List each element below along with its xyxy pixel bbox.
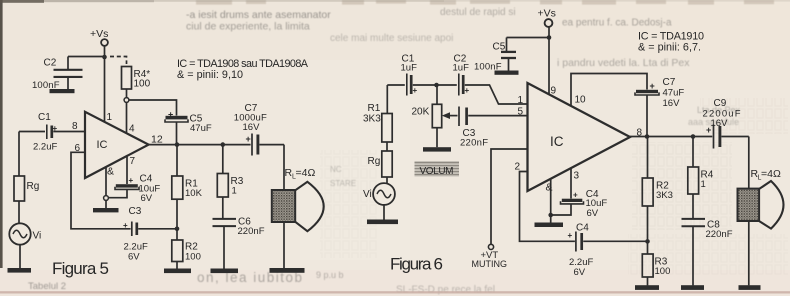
svg-text:IC: IC [550, 134, 564, 149]
svg-text:ciul de experiente, la limita: ciul de experiente, la limita [186, 21, 310, 33]
svg-text:6: 6 [75, 143, 81, 154]
svg-text:C3: C3 [129, 206, 142, 217]
svg-text:220nF: 220nF [460, 138, 488, 149]
svg-text:C2: C2 [44, 58, 57, 69]
svg-text:=4Ω: =4Ω [296, 167, 316, 179]
svg-text:16V: 16V [243, 122, 261, 133]
svg-text:8: 8 [72, 121, 78, 132]
svg-text:100: 100 [134, 79, 151, 90]
svg-text:100nF: 100nF [474, 62, 502, 73]
svg-text:& = pinii: 6,7.: & = pinii: 6,7. [638, 41, 701, 53]
svg-text:1uF: 1uF [453, 63, 470, 74]
svg-text:6V: 6V [141, 193, 153, 204]
svg-text:destul de rapid si: destul de rapid si [440, 7, 516, 18]
svg-text:3: 3 [574, 171, 580, 182]
svg-text:9: 9 [551, 86, 557, 97]
svg-text:20K: 20K [412, 107, 430, 118]
svg-text:6V: 6V [128, 252, 140, 263]
svg-text:12: 12 [151, 134, 163, 146]
svg-text:=4Ω: =4Ω [761, 168, 781, 180]
svg-text:+: + [53, 124, 58, 133]
svg-text:47uF: 47uF [190, 123, 212, 134]
svg-text:+Vs: +Vs [90, 28, 108, 40]
svg-text:47uF: 47uF [663, 88, 685, 99]
svg-text:NC: NC [330, 165, 342, 174]
svg-text:&: & [107, 166, 114, 178]
svg-text:IC: IC [97, 139, 108, 151]
svg-text:+: + [568, 231, 573, 240]
svg-text:-a iesit drums ante asemanator: -a iesit drums ante asemanator [186, 9, 331, 21]
svg-text:+: + [573, 191, 578, 200]
svg-text:C5: C5 [493, 42, 506, 53]
svg-text:Rg: Rg [368, 156, 381, 167]
svg-text:+: + [650, 81, 655, 91]
svg-text:8: 8 [637, 128, 643, 139]
svg-text:SL-FS-D pe rece la fel: SL-FS-D pe rece la fel [396, 285, 495, 296]
svg-text:+: + [413, 86, 418, 95]
svg-text:Figura 5: Figura 5 [52, 259, 109, 278]
svg-text:6V: 6V [574, 267, 586, 278]
svg-text:1uF: 1uF [401, 63, 418, 74]
svg-text:Vi: Vi [33, 231, 42, 242]
svg-text:10: 10 [575, 95, 587, 106]
svg-text:&: & [546, 182, 553, 194]
svg-text:16V: 16V [663, 98, 681, 109]
svg-text:100nF: 100nF [32, 80, 60, 91]
svg-text:MUTING: MUTING [472, 259, 508, 269]
svg-text:3K3: 3K3 [656, 190, 673, 201]
svg-text:1: 1 [518, 95, 524, 106]
svg-text:+: + [706, 125, 711, 135]
svg-text:100: 100 [655, 266, 671, 277]
svg-text:cele mai multe sesiune apoi: cele mai multe sesiune apoi [330, 33, 453, 44]
svg-text:STARE: STARE [330, 179, 356, 188]
svg-text:2.2uF: 2.2uF [33, 142, 57, 153]
svg-text:+: + [168, 110, 173, 120]
svg-text:Figura 6: Figura 6 [390, 255, 443, 274]
svg-text:+: + [465, 86, 470, 95]
svg-text:100: 100 [185, 251, 201, 262]
svg-text:16V: 16V [711, 118, 729, 129]
svg-text:VOLUM: VOLUM [420, 166, 454, 177]
svg-text:C4: C4 [576, 223, 589, 234]
svg-text:5: 5 [518, 107, 524, 118]
svg-text:C1: C1 [38, 112, 51, 123]
svg-text:3K3: 3K3 [363, 114, 381, 125]
svg-text:9 p.u b: 9 p.u b [316, 270, 344, 280]
svg-text:4: 4 [129, 124, 135, 135]
svg-text:& = pinii: 9,10: & = pinii: 9,10 [177, 69, 243, 81]
svg-text:1: 1 [107, 112, 113, 123]
svg-text:1: 1 [701, 179, 706, 190]
svg-text:+: + [246, 134, 251, 144]
svg-text:1: 1 [232, 186, 237, 197]
svg-text:ea pentru f. ca. Dedosj-a: ea pentru f. ca. Dedosj-a [562, 18, 672, 29]
svg-text:C7: C7 [663, 77, 676, 88]
svg-text:220nF: 220nF [238, 226, 265, 237]
svg-text:Tabelul 2: Tabelul 2 [28, 281, 66, 292]
svg-text:220nF: 220nF [706, 229, 733, 240]
svg-text:+: + [123, 221, 128, 230]
svg-text:i pandru vedeti la. Lta di Pex: i pandru vedeti la. Lta di Pex [557, 57, 690, 69]
svg-text:7: 7 [130, 156, 136, 167]
svg-text:2: 2 [515, 162, 521, 173]
svg-text:+Vs: +Vs [538, 8, 556, 20]
svg-text:R1: R1 [368, 103, 381, 114]
svg-text:+: + [129, 176, 134, 185]
svg-text:Rg: Rg [27, 181, 40, 192]
svg-text:Vi: Vi [363, 189, 372, 200]
svg-text:6V: 6V [587, 208, 599, 219]
svg-text:10K: 10K [185, 188, 203, 199]
